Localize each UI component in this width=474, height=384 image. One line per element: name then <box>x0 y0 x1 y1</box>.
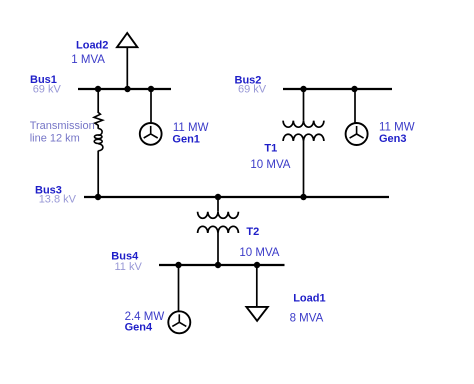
junction Bus4 / Gen4 <box>175 262 181 268</box>
wire Gen3 to Bus2 <box>354 89 356 123</box>
generator Gen1 symbol <box>140 123 162 145</box>
svg-text:Gen1: Gen1 <box>172 133 200 145</box>
svg-text:69 kV: 69 kV <box>33 84 62 96</box>
svg-text:69 kV: 69 kV <box>238 84 267 96</box>
junction Bus3 / T1 <box>300 194 306 200</box>
load Load2 symbol <box>117 33 137 47</box>
svg-text:Gen4: Gen4 <box>125 321 153 333</box>
wire Bus3 to T2 primary <box>217 197 219 212</box>
svg-text:T2: T2 <box>246 226 259 238</box>
svg-text:Load1: Load1 <box>293 292 325 304</box>
bus Bus4 <box>159 264 285 266</box>
svg-text:Transmission: Transmission <box>30 120 95 132</box>
junction Bus2 / T1 <box>300 86 306 92</box>
bus Bus3 <box>84 196 389 198</box>
transformer T2 primary winding <box>198 212 239 219</box>
junction Bus1 / Gen1 <box>148 86 154 92</box>
wire T2 secondary to Bus4 <box>217 233 219 265</box>
junction Bus3 / T2 <box>215 194 221 200</box>
bus Bus1 <box>78 88 171 90</box>
wire Load1 to Bus4 <box>256 265 258 307</box>
junction Bus2 / Gen3 <box>351 86 357 92</box>
transmission line series inductor (coil) <box>94 128 103 150</box>
wire Gen4 to Bus4 <box>178 265 180 312</box>
svg-text:1 MVA: 1 MVA <box>71 54 105 66</box>
generator Gen3 symbol <box>346 123 368 145</box>
junction Bus1 / transmission line <box>95 86 101 92</box>
svg-text:Gen3: Gen3 <box>379 133 407 145</box>
wire Bus2 to T1 primary <box>303 89 305 121</box>
svg-text:10 MVA: 10 MVA <box>250 159 290 171</box>
svg-text:11 kV: 11 kV <box>115 261 143 273</box>
svg-text:11 MW: 11 MW <box>173 122 209 134</box>
transformer T1 primary winding <box>283 121 324 128</box>
wire Bus1 to transmission line <box>97 89 99 113</box>
bus Bus2 <box>283 88 392 90</box>
wire resistor to inductor <box>97 125 99 129</box>
transmission line series resistor (zigzag) <box>94 112 103 125</box>
junction Bus4 / T2 <box>215 262 221 268</box>
junction Bus4 / Load1 <box>254 262 260 268</box>
svg-text:8 MVA: 8 MVA <box>290 313 324 325</box>
junction Bus1 / Load2 <box>124 86 130 92</box>
wire Gen1 to Bus1 <box>150 89 152 122</box>
svg-text:Load2: Load2 <box>76 40 108 52</box>
load Load1 symbol <box>246 307 267 321</box>
transformer T2 secondary winding <box>198 226 239 233</box>
svg-text:13.8 kV: 13.8 kV <box>39 194 77 206</box>
generator Gen4 symbol <box>168 311 190 333</box>
svg-text:line 12 km: line 12 km <box>30 132 80 144</box>
svg-text:11 MW: 11 MW <box>379 122 415 134</box>
svg-text:T1: T1 <box>264 142 277 154</box>
wire T1 secondary to Bus3 <box>303 141 305 197</box>
wire transmission line to Bus3 <box>97 151 99 197</box>
junction Bus3 / transmission line <box>95 194 101 200</box>
wire Load2 to Bus1 <box>126 47 128 89</box>
svg-text:10 MVA: 10 MVA <box>239 247 279 259</box>
transformer T1 secondary winding <box>283 134 324 141</box>
